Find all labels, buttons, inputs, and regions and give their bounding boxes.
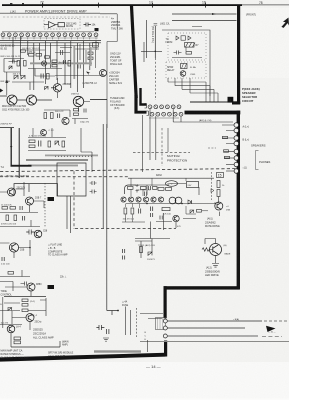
diode D621 [188,36,191,40]
exit wire 1 [167,320,262,322]
net label left col [1,291,13,296]
wire drop r2d [167,128,169,152]
power transistor Q614 [73,96,83,106]
fig ref box 15 [217,173,224,178]
capacitor C608 [78,65,80,69]
transistor Q623 [143,197,148,202]
power amp block right edge [90,14,117,100]
terminal single C [234,149,238,153]
resistor R611 [47,74,50,80]
wire edge vertical [6,72,8,95]
net label spkr relay [167,67,175,72]
wire speaker bus [190,101,237,103]
resistor R640 [22,299,28,302]
resistor R626 [29,145,35,148]
transistor Q608 [26,197,34,205]
top ruler line [2,4,242,6]
resistor R670 [158,188,164,191]
tick marks node [154,24,158,26]
dashed lower separator [75,227,176,229]
terminal single F [234,169,238,173]
wire row 324 [0,324,22,326]
wire to driver [12,82,44,90]
border: right thick vertical lower [237,111,240,290]
capacitor C612 [58,114,60,119]
capacitor C620 [21,282,27,286]
resistor R630 [2,207,8,210]
pin tick marks below [3,37,96,39]
type list text bottom [33,328,54,340]
emitter resistor R622 [51,113,54,119]
wire prot right [186,206,208,214]
exit wire 1 dash [264,320,289,322]
ground q630 [212,264,219,268]
transistor Q624 [151,197,156,202]
halftone trace vertical [73,46,75,79]
exit arrowhead [266,326,276,332]
resistor R664 [128,187,134,190]
resistor R680 [217,181,220,188]
thick ground bar [11,165,32,167]
border: right upper foot [232,101,240,104]
phones jack label [242,87,260,103]
border: bottom-right horizontal [164,286,240,289]
wire q612 [12,311,30,330]
resistor R613 [88,52,93,54]
transistor Q601 [41,61,46,66]
wire led emitter [219,212,221,216]
wire q610 [0,240,30,258]
emitter resistor R621 [44,113,47,119]
wire relay drop 2 [70,196,72,233]
exit wire 3 [167,335,258,337]
wire fuse drop [126,307,131,336]
diode D606 edge [0,89,3,93]
resistor R681 [217,190,220,197]
wire staircase 2 [175,78,210,102]
bus wire lower [0,42,101,44]
resistor R661 [224,150,229,152]
ruler tick 7 [97,3,100,8]
capacitor C618 [26,230,34,235]
transistor Q611 [27,283,35,291]
diode D601 [9,66,12,69]
wire right stub [208,147,216,149]
transistor Q621 [128,197,133,202]
muting protection label [167,154,187,163]
border: bottom bar [0,353,166,362]
diode D625 [188,200,192,204]
resistor R628 [62,141,65,147]
resistor R650 [186,52,192,55]
bus wire short [0,45,98,47]
resistor R690 [140,247,143,253]
resistor R642 [22,309,28,312]
border: lower-left vertical lower part [164,341,167,357]
wire bce drop [147,340,149,352]
transistor Q605 [62,117,69,124]
component list text block right of power amp [109,16,125,110]
connector row J601 [148,105,181,109]
wire staircase 4 [190,78,218,102]
enclosure box lower left [14,184,58,196]
led block dashed edge [211,172,213,200]
exit wire 2 [167,327,245,329]
vertical wire muting feed [154,26,156,58]
top right wire arrow [212,13,216,15]
resistor R665 [141,187,147,190]
transistor Q625 [158,197,163,202]
protection block top wire [128,177,214,179]
resistor R608 [52,60,57,62]
relay RY602 oval [166,181,178,187]
transistor Q613 [7,325,15,333]
dashed mute sub-block [44,19,80,30]
connector row J602 bracket [147,111,149,116]
dashed block left edge [154,58,156,100]
net label to/from [166,39,173,44]
terminal single E [234,162,238,166]
wire q608 collector [30,201,45,212]
wire row 276 [0,270,30,277]
resistor R625 [29,140,35,143]
bus wire upper [0,40,101,42]
wire cluster verticals [131,178,186,196]
transistor Q628 led driver [215,202,223,210]
terminal wires A [222,125,234,131]
ruler tick small left [10,3,12,5]
zener D605 [55,141,60,146]
resistor R672 [162,208,170,211]
terminal single D [234,156,238,160]
transistor Q622 [136,197,141,202]
dual transistor Q626 [169,197,182,204]
wire q611 [0,282,31,297]
wire out node [44,110,70,117]
resistor R682 zigzag [202,248,213,252]
capacitor C660 [96,325,104,330]
resistor R609 [52,65,57,67]
wire row 226 [0,220,40,227]
wire relay drop 1 [66,196,68,229]
wire mid cluster [28,69,62,77]
exit connector pin 1 [163,319,167,323]
speaker terminal pair B [234,136,239,146]
resistor R614 [88,57,93,59]
capacitor C617 [23,216,25,221]
terminal wire E [226,164,234,166]
resistor R641 [22,304,28,307]
resistor R674 [131,208,134,214]
net label bracket [256,151,259,170]
board ref black box B-7 [48,285,55,289]
wire q630 top [205,239,216,245]
diode D630 [148,252,152,255]
text block signal gnd [48,244,68,257]
wire q630 bottom [215,256,217,264]
dotted wire row [55,155,92,158]
transistor Q602 driver [51,84,62,92]
resistor R645 [8,272,14,275]
relay contact box [181,36,185,40]
left rail vertical B1 [10,128,12,165]
resistor network hatch [158,318,163,330]
board ref black box B-6 [48,197,55,201]
transistor Q630 [210,244,222,256]
resistor R675 [197,210,202,213]
capacitor C650 [123,249,125,253]
op-amp U1 [44,22,58,29]
row J602 pin marks [151,113,182,115]
wire rear line [188,121,233,123]
wire row 212 [0,212,38,214]
junction dot A [29,247,31,249]
dashed channel separator [0,169,237,172]
resistor R632 [6,215,9,221]
diode D602 [14,76,18,80]
tiny label col [145,332,147,341]
transistor Q629 [121,197,126,202]
wire block bottom edge [90,100,107,129]
power transistor Q610 [9,243,18,252]
wire q614 emitter [79,102,91,113]
diode D604 [45,87,49,90]
capacitor C622 [90,190,97,194]
terminal wire C [224,151,234,153]
terminal wires B [222,138,234,144]
capacitor C603 [9,60,19,64]
resistor R660 [223,136,228,138]
wire feedback [72,119,88,125]
wire row 303 [4,300,46,303]
capacitor C651 [123,256,125,260]
top right wire 1 [172,13,237,15]
capacitor C635 [149,186,151,190]
capacitor C634 plus [136,184,139,193]
junction dot muting [155,51,157,53]
paper grain overlay [0,0,1,1]
rail arrow [10,146,12,148]
halftone bar 1 [26,159,88,161]
dashed block vertical [73,171,75,229]
muting block outer box [162,30,210,96]
ladder wire segments [20,48,99,53]
resistor R631 [10,207,16,210]
capacitor C606 [41,74,43,79]
resistor R671 [166,188,172,191]
transistor Q615 [100,70,107,77]
relay coil box [181,64,188,69]
border: outer channel L [134,95,146,114]
power transistor Q604 [7,95,17,105]
diode D626 [190,210,194,213]
diode D620 [176,36,179,40]
dashed channel separator second [0,176,128,178]
border: lower section top bar [185,111,241,115]
capacitor C616 [20,206,22,210]
left margin wire [2,297,4,328]
muting block dashed box lower [166,62,206,78]
wire staircase 3 [182,78,214,102]
wire drop r2a [173,109,188,122]
capacitor C605 [64,60,66,64]
resistor R666 [153,187,158,190]
power amp block dashed border [0,12,100,14]
transistor Q627 [173,215,179,221]
power transistor Q603 [27,95,37,105]
capacitor C661 [107,329,109,334]
border: left power-amp thick vertical [130,6,138,98]
wire protection top [137,184,199,196]
capacitor C641 [151,213,153,217]
wire stub front [192,26,202,28]
power box [187,182,199,188]
bus pair vertical left [102,124,104,228]
wire left drop [142,115,144,172]
transistor Q620 [180,71,186,77]
wire drops from pins [13,37,96,92]
row labels [149,117,179,120]
wire row 296 [4,296,46,298]
exit wire 4 [140,341,289,343]
speaker terminal pair A [234,123,239,133]
cluster wires [28,128,66,151]
value label led drive block [205,267,220,278]
dashed muting boundary [133,152,190,154]
resistor R607 [24,61,27,67]
muting block dashed box upper [168,33,206,60]
wire drop r1b [155,116,157,160]
capacitor C619 [2,257,4,261]
relay RY601 [185,43,196,48]
wire drop r1a [149,109,151,160]
wire drop r2c [161,128,163,166]
exit connector pin 3 [163,334,167,338]
wire staircase 1 [168,78,206,102]
left rail vertical B2 [18,128,20,178]
wire drop r2b [180,116,182,122]
resistor R627 [48,141,51,147]
capacitor C613 [84,109,86,113]
current arrow [86,72,90,76]
value label q605 [205,218,220,229]
pin cross marks [2,34,97,36]
diode D603 [21,76,25,80]
transistor Q612 [26,314,34,322]
dashed wire drop [136,308,138,338]
pin stub box J3 [93,43,99,48]
row J601 pin marks [149,106,180,108]
resistor R662 [225,156,230,158]
resistor R603 [29,54,35,57]
resistor R624 [74,113,79,115]
resistor R633 [14,215,17,221]
exit connector pin 2 [163,326,167,330]
resistor R643 [14,337,21,340]
wire emitter bus [0,96,52,100]
wire into block [141,42,162,62]
wire prot verticals [122,204,145,223]
transistor Q606 [41,130,47,136]
wire inner vertical [146,20,148,58]
junction blob [95,28,99,31]
protection block rounded corner [125,185,137,194]
connector row J601 bracket [145,104,147,109]
halftone bar 0 [45,155,98,157]
transistor Q607 [8,188,16,196]
wire right col [80,44,96,68]
pin labels row [1,31,98,38]
resistor R610 [68,61,71,67]
wire block mid [172,47,202,57]
wire row 310 [0,298,46,316]
capacitor C621 [90,181,97,185]
resistor network box [156,318,166,330]
capacitor C640 [151,207,153,212]
capacitor C644 [145,192,147,197]
halftone trace vertical 2 [90,47,92,66]
bus pair vertical right [106,124,108,311]
resistor R606 [17,61,20,67]
net label main [62,341,69,347]
margin arrow mark [281,18,289,28]
wire protection bottom [151,213,197,239]
wire led [214,197,219,204]
resistor R673 [124,208,127,214]
fig ref black box 1 [228,97,234,103]
relay box outline [57,163,86,196]
border: inner channel L [139,88,146,106]
capacitor C609 [61,50,63,55]
wire collector [57,78,59,98]
diode D610 [8,308,12,311]
wire into border connector [140,314,163,319]
capacitor C642 [139,209,141,214]
wire protection mid [126,203,216,205]
halftone trace horizontal [30,62,92,64]
wire q607 base [0,182,24,196]
junction dots protection [146,203,148,205]
ground sym bottom [103,338,109,341]
border: lower-left vertical upper part [164,286,167,318]
halftone bar bottom [94,350,141,352]
terminal wire D [224,157,234,159]
halftone bar 2 [28,165,78,167]
fuse label [122,301,129,307]
terminal wire F [226,170,234,172]
border: right thick vertical upper [237,5,240,104]
connector row J602 [150,112,183,116]
center bottom cluster wires [135,239,170,259]
capacitor C630 [174,51,182,55]
wire rch stub [0,127,14,129]
wire bottom bus [11,333,60,347]
wire bus corner [107,311,118,316]
wire long mid [55,75,103,77]
coil hatch [182,64,187,69]
top right wire 2 [172,20,237,22]
resistor R604 [36,54,42,57]
resistor R623 [74,109,79,111]
connector pin row P601 [1,33,98,37]
resistor R605 [45,56,50,58]
wire elbow down [81,128,92,172]
capacitor C614 [39,141,41,147]
resistor R616 [21,50,26,52]
IC box IC601 [58,23,65,27]
junction dot corner [117,310,119,312]
resistor R644 [14,341,21,344]
